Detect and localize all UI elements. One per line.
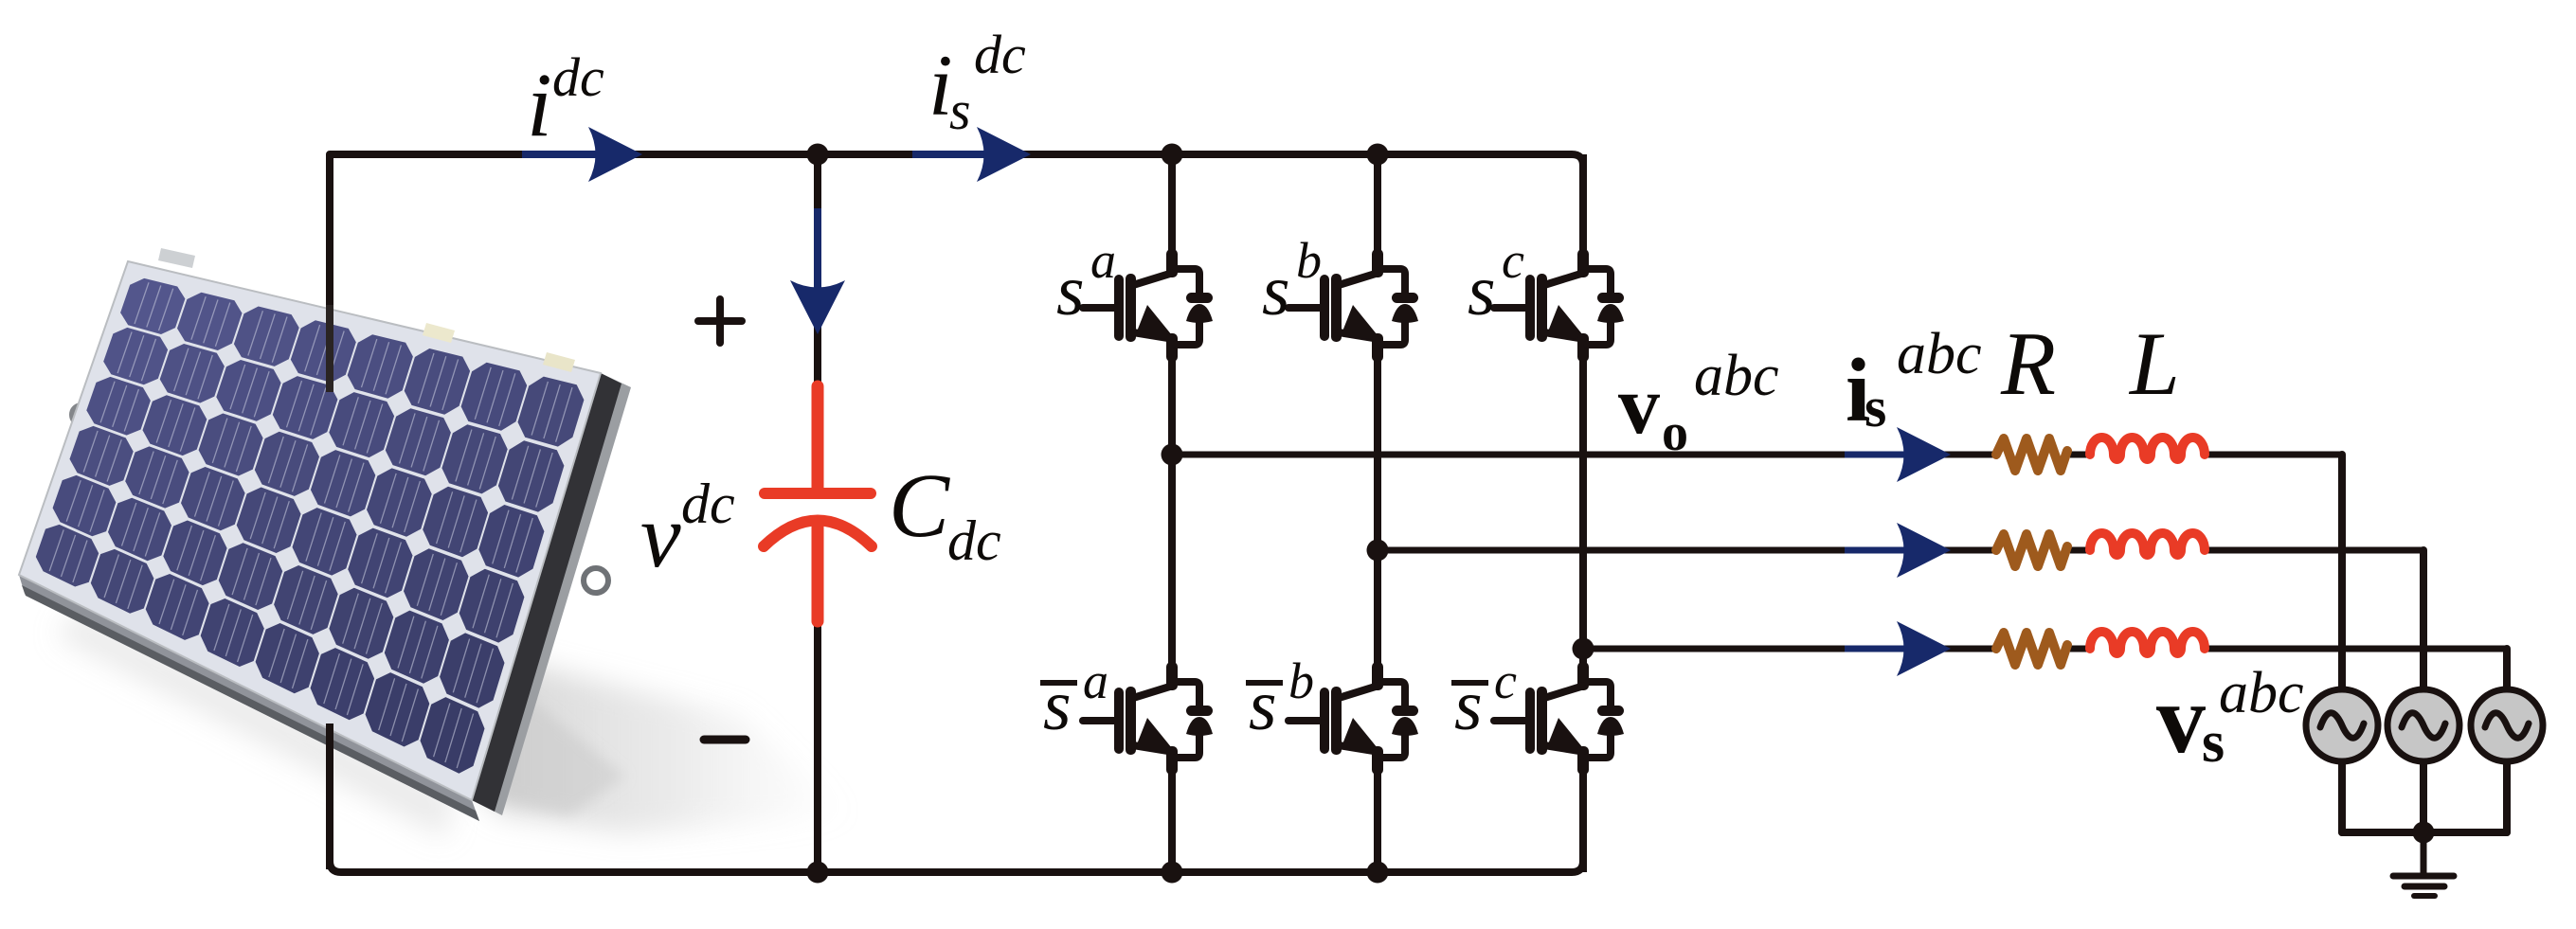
svg-text:abc: abc [1694, 344, 1779, 408]
svg-text:s: s [1249, 666, 1277, 745]
svg-text:v: v [640, 485, 681, 586]
svg-text:v: v [2156, 665, 2206, 774]
svg-text:dc: dc [947, 509, 1001, 572]
svg-text:a: a [1083, 652, 1108, 709]
svg-text:v: v [1618, 360, 1660, 452]
svg-text:c: c [1494, 652, 1517, 709]
svg-text:R: R [2000, 313, 2056, 414]
svg-text:C: C [889, 455, 950, 556]
svg-text:dc: dc [974, 24, 1026, 85]
svg-text:c: c [1502, 232, 1524, 289]
svg-text:dc: dc [552, 46, 604, 108]
svg-text:b: b [1288, 652, 1314, 709]
svg-text:b: b [1296, 232, 1322, 289]
svg-text:s: s [949, 80, 971, 141]
svg-text:a: a [1090, 232, 1116, 289]
svg-text:s: s [1454, 666, 1483, 745]
svg-text:o: o [1662, 403, 1688, 462]
svg-text:L: L [2128, 313, 2180, 414]
svg-text:s: s [1864, 376, 1886, 438]
svg-text:i: i [527, 54, 552, 155]
svg-text:s: s [1056, 251, 1085, 331]
svg-text:dc: dc [681, 473, 735, 535]
svg-text:s: s [1043, 666, 1072, 745]
svg-text:s: s [1262, 251, 1290, 331]
svg-text:abc: abc [2219, 661, 2304, 725]
svg-text:s: s [1468, 251, 1496, 331]
svg-text:abc: abc [1897, 322, 1982, 386]
